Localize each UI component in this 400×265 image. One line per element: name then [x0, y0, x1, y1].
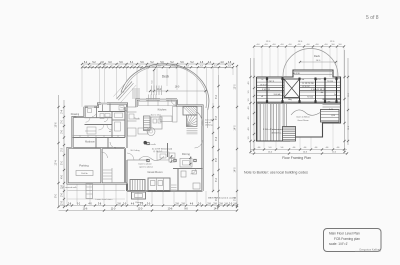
svg-text:lower to alcove: lower to alcove — [138, 163, 152, 166]
left plan left dimension column outer — [58, 95, 60, 207]
small rooms above stairs — [128, 128, 137, 136]
closet right — [169, 153, 175, 158]
left plan bottom dimension tier 2 — [59, 210, 238, 212]
svg-text:13-2: 13-2 — [157, 89, 162, 91]
stair opening x-box — [284, 79, 300, 98]
svg-text:20: 20 — [111, 66, 113, 68]
framing deck arc — [283, 49, 338, 77]
svg-text:6-8: 6-8 — [228, 66, 231, 68]
stair block by kitchen — [144, 117, 151, 119]
hall column extras — [127, 111, 137, 113]
svg-text:5 of 8: 5 of 8 — [366, 15, 379, 21]
svg-text:Open to Below: Open to Below — [296, 116, 310, 119]
svg-text:3-0: 3-0 — [248, 137, 250, 140]
svg-text:20: 20 — [97, 66, 99, 68]
svg-text:11-0: 11-0 — [348, 93, 350, 97]
framing right dimension columns — [344, 50, 346, 152]
svg-text:2x10 blk: 2x10 blk — [274, 94, 281, 96]
open to below curve — [291, 110, 321, 115]
svg-text:5 1/4 x 11 7/8 TS: 5 1/4 x 11 7/8 TS — [311, 89, 326, 91]
svg-text:@16: @16 — [331, 115, 335, 117]
column dark dot — [144, 141, 147, 144]
hall wall — [126, 107, 128, 148]
powder room walls top — [98, 111, 125, 113]
kitchen counters — [139, 101, 176, 105]
svg-text:Floor Framing Plan: Floor Framing Plan — [282, 156, 311, 160]
svg-text:2x6 ext walls: 2x6 ext walls — [144, 143, 155, 146]
svg-text:Lower level stairs: Lower level stairs — [96, 198, 114, 201]
svg-text:20: 20 — [118, 66, 120, 68]
svg-text:18'-6: 18'-6 — [56, 122, 58, 128]
framing top extension lines — [253, 48, 255, 78]
svg-text:TJI 110: TJI 110 — [327, 81, 333, 83]
svg-text:4-0: 4-0 — [248, 128, 250, 131]
deck arc inner — [124, 65, 207, 108]
bedroom/bath partitions left block extra — [96, 107, 98, 118]
svg-text:20: 20 — [83, 66, 85, 68]
framing plan outer walls — [257, 70, 341, 99]
framing vertical joists bottom left — [257, 104, 259, 141]
svg-text:14'-6: 14'-6 — [303, 152, 307, 154]
fireplace block below wall — [132, 192, 146, 199]
svg-text:11'-0: 11'-0 — [332, 152, 336, 154]
small wc by stairs — [151, 117, 162, 129]
divider wall dining/great — [167, 143, 169, 157]
left plan right dimension column outer — [236, 66, 238, 207]
framing beams vertical — [266, 78, 268, 103]
fan winder stair — [187, 115, 198, 127]
svg-text:4-6: 4-6 — [337, 147, 340, 149]
svg-text:15'-0: 15'-0 — [268, 152, 272, 154]
left plan bottom dimension tier 1 — [59, 205, 238, 207]
dining/great room dividers — [127, 159, 148, 161]
svg-text:@ 16 OC: @ 16 OC — [302, 86, 310, 88]
svg-text:@ 16 O.C.: @ 16 O.C. — [153, 151, 163, 153]
deck vertical dim — [153, 70, 155, 91]
svg-text:5-0: 5-0 — [269, 147, 272, 149]
pantry hatched room — [183, 107, 197, 116]
svg-text:4-0: 4-0 — [248, 117, 250, 120]
svg-text:Main Floor Level Plan: Main Floor Level Plan — [329, 232, 360, 236]
svg-text:Parking: Parking — [79, 164, 89, 168]
svg-text:11 7/8 TJI 110: 11 7/8 TJI 110 — [302, 83, 313, 85]
svg-text:open to above: open to above — [139, 166, 154, 169]
svg-text:20: 20 — [104, 66, 106, 68]
svg-text:blkg: blkg — [288, 99, 291, 101]
svg-text:13'-4: 13'-4 — [56, 160, 58, 166]
small dim col x171 — [170, 155, 172, 163]
left plan top dimension line tier 1 — [82, 63, 233, 65]
svg-text:3-0: 3-0 — [248, 91, 250, 94]
svg-text:Deck: Deck — [162, 75, 170, 79]
svg-text:4-6: 4-6 — [293, 147, 296, 149]
svg-text:6-8: 6-8 — [158, 66, 161, 68]
framing left dimension columns — [250, 58, 252, 152]
svg-text:20: 20 — [132, 66, 134, 68]
interior wall mudroom row — [73, 137, 126, 139]
deck stairs left cluster — [132, 88, 134, 99]
svg-text:14'-0: 14'-0 — [234, 125, 236, 131]
svg-text:rm: rm — [74, 116, 77, 119]
svg-text:3 1/2 x 11: 3 1/2 x 11 — [262, 89, 270, 91]
svg-text:FCB Framing plan: FCB Framing plan — [334, 237, 360, 241]
svg-text:4-6: 4-6 — [315, 147, 318, 149]
beam end marks — [266, 78, 268, 81]
left plan outer walls — [73, 117, 85, 148]
left plan left dimension column inner — [63, 100, 65, 207]
interior wall x125 upper — [124, 107, 126, 138]
svg-text:6-8: 6-8 — [186, 66, 189, 68]
svg-text:Dining: Dining — [182, 152, 190, 156]
svg-text:2x10: 2x10 — [329, 109, 333, 111]
svg-text:4-6: 4-6 — [258, 147, 261, 149]
svg-text:Great Room: Great Room — [297, 119, 309, 122]
svg-text:3-0: 3-0 — [248, 99, 250, 102]
svg-text:x4: x4 — [261, 96, 263, 98]
svg-text:@ 16 O.C.: @ 16 O.C. — [271, 133, 282, 135]
wavy open-below rail — [139, 156, 164, 160]
svg-text:5-6: 5-6 — [281, 147, 284, 149]
bottom extension lines — [66, 183, 68, 204]
covered walk lines below garage — [68, 190, 126, 192]
svg-text:2x: 2x — [334, 94, 336, 96]
svg-text:15-6: 15-6 — [83, 209, 88, 211]
svg-text:Kitchen: Kitchen — [158, 108, 167, 112]
hallway marks left of bath — [171, 184, 177, 186]
svg-text:TJI 110: TJI 110 — [307, 97, 313, 99]
deck dimension line — [150, 90, 206, 92]
band mid strip — [257, 87, 340, 90]
framing bottom ext lines — [263, 141, 265, 149]
left plan top dimension line tier 2 — [82, 66, 233, 68]
svg-text:@ 16 OC: @ 16 OC — [260, 85, 268, 87]
deck stairs mid cluster — [151, 86, 153, 96]
hall doorway line — [127, 106, 137, 108]
lower level stairs below garage — [86, 184, 93, 199]
svg-text:9ft Ceiling: 9ft Ceiling — [131, 149, 140, 152]
svg-text:12-0: 12-0 — [138, 209, 143, 211]
svg-text:2x8 @16: 2x8 @16 — [292, 73, 299, 75]
stripes below pantry — [187, 128, 198, 130]
framing deck dim — [300, 61, 336, 63]
left plan right dimension column mid — [218, 75, 220, 207]
great room furniture marks — [157, 152, 169, 160]
framing plan top dimension line — [254, 46, 344, 48]
left plan right dimension column inner — [212, 103, 214, 191]
svg-text:4-0: 4-0 — [248, 82, 250, 85]
svg-text:11-0: 11-0 — [111, 209, 116, 211]
svg-text:Chimney: Chimney — [135, 202, 143, 204]
dining dim col — [189, 156, 191, 166]
extension lines from top dims down to plan — [81, 68, 83, 107]
svg-text:MAIN FLR (heated & sealed): MAIN FLR (heated & sealed) — [208, 197, 236, 200]
svg-text:Note to Builder: use local bui: Note to Builder: use local building code… — [244, 171, 308, 175]
svg-text:Nook: Nook — [134, 119, 140, 121]
bedroom/bath fixtures extra2 — [119, 106, 124, 111]
svg-text:20: 20 — [125, 66, 127, 68]
corridor stairs right of garage — [103, 169, 112, 171]
svg-text:4-6: 4-6 — [326, 147, 329, 149]
svg-text:dbl TJI: dbl TJI — [315, 79, 321, 81]
svg-text:16x8 dr: 16x8 dr — [81, 173, 88, 175]
svg-text:11 7/8 TJI: 11 7/8 TJI — [266, 81, 274, 83]
framing beam horizontal mid — [257, 102, 341, 104]
framing stair block bottom — [283, 127, 296, 142]
pantry curve — [197, 112, 202, 126]
main stairs bottom — [130, 180, 145, 191]
framing joists top band — [257, 78, 340, 80]
framing right block lower — [321, 110, 340, 123]
svg-text:12'-0: 12'-0 — [234, 84, 236, 90]
svg-text:20: 20 — [139, 66, 141, 68]
window marks on walls — [88, 106, 94, 108]
svg-text:16-0 x 13-0: 16-0 x 13-0 — [150, 115, 161, 117]
svg-text:16-0: 16-0 — [175, 87, 180, 89]
svg-text:Drawing: Drawing — [71, 113, 80, 116]
wc room right of stairs — [148, 178, 170, 191]
svg-text:scale: 1/4″=1′: scale: 1/4″=1′ — [329, 242, 348, 246]
door arcs — [120, 107, 127, 114]
svg-text:Deck: Deck — [314, 54, 321, 58]
svg-text:6-8: 6-8 — [200, 66, 203, 68]
svg-text:10-6: 10-6 — [168, 209, 173, 211]
garage door dashed — [76, 171, 93, 176]
deck arc outer — [121, 64, 209, 110]
svg-text:Great Room: Great Room — [147, 170, 163, 174]
svg-text:14'-0: 14'-0 — [234, 167, 236, 173]
framing bottom dimension lines — [251, 149, 348, 151]
title block box — [324, 229, 382, 252]
svg-text:1/2 covered walk: 1/2 covered walk — [61, 187, 76, 189]
svg-text:14-6: 14-6 — [214, 209, 219, 211]
svg-text:20: 20 — [90, 66, 92, 68]
bath room bottom right — [173, 168, 203, 170]
svg-text:5 1/4 x Timberstrand: 5 1/4 x Timberstrand — [263, 128, 284, 131]
framing joists bump — [294, 71, 332, 73]
framing joists right block upper — [323, 104, 341, 106]
dining table — [180, 159, 192, 168]
svg-text:Gregorios Kalibat: Gregorios Kalibat — [359, 247, 380, 251]
svg-text:6-8: 6-8 — [214, 66, 217, 68]
svg-text:Mudroom: Mudroom — [85, 141, 95, 144]
svg-text:hdr: hdr — [302, 79, 305, 81]
svg-text:10-6: 10-6 — [348, 126, 350, 130]
bedroom/bath partitions left block — [85, 124, 113, 126]
svg-text:shelving: shelving — [205, 124, 212, 126]
column dots — [147, 142, 149, 144]
svg-text:4-6: 4-6 — [304, 147, 307, 149]
svg-text:4-0: 4-0 — [248, 107, 250, 110]
